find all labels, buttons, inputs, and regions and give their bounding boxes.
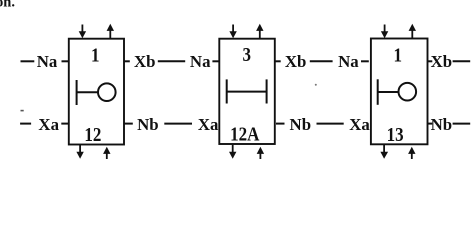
svg-text:12A: 12A (230, 123, 260, 146)
svg-text:Na: Na (190, 52, 211, 71)
svg-text:Xa: Xa (198, 115, 219, 134)
svg-text:13: 13 (387, 124, 404, 147)
svg-text:1: 1 (91, 44, 100, 67)
svg-text:Xa: Xa (349, 115, 370, 134)
svg-text:on.: on. (0, 0, 15, 11)
svg-text:Nb: Nb (137, 115, 159, 134)
svg-text:Xb: Xb (431, 52, 453, 71)
svg-text:Xb: Xb (285, 52, 307, 71)
svg-text:12: 12 (84, 124, 101, 147)
svg-text:Nb: Nb (290, 115, 312, 134)
svg-text:3: 3 (242, 44, 251, 67)
svg-text:1: 1 (393, 44, 402, 67)
svg-text:Na: Na (338, 52, 359, 71)
svg-text:Nb: Nb (431, 115, 453, 134)
svg-text:Xa: Xa (38, 115, 59, 134)
svg-text:Xb: Xb (134, 52, 156, 71)
svg-text:Na: Na (37, 52, 58, 71)
